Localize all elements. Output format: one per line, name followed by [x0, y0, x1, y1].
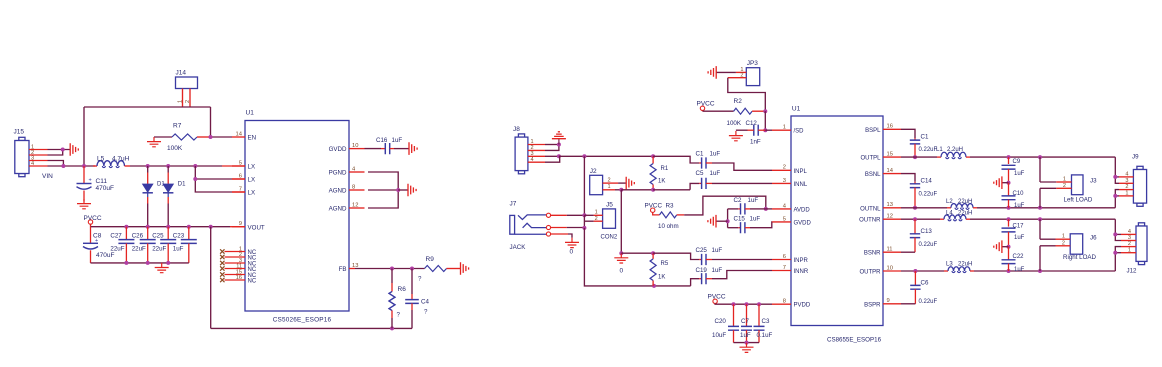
svg-text:1uF: 1uF	[1014, 171, 1025, 177]
svg-text:1: 1	[608, 184, 611, 190]
svg-text:6: 6	[783, 254, 786, 260]
svg-text:INPR: INPR	[794, 258, 809, 264]
svg-text:LX: LX	[248, 190, 256, 197]
svg-text:L2: L2	[946, 199, 953, 205]
svg-text:AGND: AGND	[329, 206, 347, 213]
svg-text:2: 2	[1063, 183, 1066, 189]
svg-text:INNL: INNL	[794, 182, 808, 188]
svg-text:1uF: 1uF	[740, 332, 751, 339]
svg-text:C25: C25	[696, 247, 708, 254]
svg-text:2: 2	[185, 100, 191, 103]
svg-text:R1: R1	[661, 166, 669, 172]
svg-text:OUTPL: OUTPL	[860, 156, 881, 162]
svg-text:BSNL: BSNL	[865, 172, 881, 178]
svg-text:GVDD: GVDD	[794, 220, 812, 226]
svg-text:OUTNL: OUTNL	[860, 206, 881, 212]
svg-text:J7: J7	[510, 201, 517, 208]
svg-text:INNR: INNR	[794, 269, 809, 275]
svg-text:22uH: 22uH	[958, 211, 972, 217]
svg-text:1nF: 1nF	[750, 139, 761, 146]
svg-text:C25: C25	[152, 233, 164, 240]
svg-text:C12: C12	[746, 120, 758, 127]
svg-text:INPL: INPL	[794, 169, 808, 175]
svg-text:C1: C1	[921, 134, 929, 141]
svg-text:U1: U1	[792, 106, 801, 113]
svg-text:CS8655E_ESOP16: CS8655E_ESOP16	[827, 337, 882, 344]
svg-text:J15: J15	[14, 129, 25, 136]
svg-text:OUTNR: OUTNR	[859, 218, 881, 224]
svg-text:0: 0	[570, 249, 574, 256]
svg-text:PVCC: PVCC	[697, 101, 715, 108]
svg-text:2: 2	[595, 216, 598, 222]
svg-text:16: 16	[887, 124, 893, 130]
svg-text:10: 10	[887, 265, 893, 271]
svg-text:2: 2	[1062, 240, 1065, 246]
svg-text:BSPL: BSPL	[865, 128, 881, 134]
svg-text:22uF: 22uF	[132, 246, 146, 253]
svg-text:1: 1	[595, 210, 598, 216]
svg-text:470uF: 470uF	[96, 252, 114, 259]
svg-text:1uF: 1uF	[173, 246, 184, 253]
svg-text:4: 4	[1128, 229, 1131, 235]
svg-text:12: 12	[887, 214, 893, 220]
svg-text:C6: C6	[921, 280, 929, 287]
svg-text:2: 2	[608, 177, 611, 183]
svg-text:L4: L4	[946, 211, 953, 217]
svg-text:9: 9	[887, 298, 890, 304]
svg-text:1: 1	[1062, 234, 1065, 240]
svg-text:8: 8	[783, 299, 786, 305]
svg-text:J2: J2	[590, 168, 597, 175]
svg-text:?: ?	[424, 309, 428, 316]
svg-text:BSPR: BSPR	[864, 302, 881, 308]
svg-text:0.22uF: 0.22uF	[919, 242, 938, 248]
svg-text:0.1uF: 0.1uF	[757, 332, 773, 339]
svg-text:J12: J12	[1127, 268, 1138, 275]
svg-text:AGND: AGND	[329, 188, 347, 195]
svg-text:LX: LX	[248, 164, 256, 171]
svg-text:C10: C10	[1013, 191, 1025, 197]
svg-text:U1: U1	[246, 110, 255, 117]
svg-text:C15: C15	[734, 216, 746, 223]
svg-text:13: 13	[887, 202, 893, 208]
svg-text:5: 5	[783, 216, 786, 222]
svg-text:L5: L5	[97, 156, 105, 163]
svg-text:100K: 100K	[167, 145, 183, 152]
svg-text:VIN: VIN	[42, 173, 53, 180]
svg-text:4: 4	[31, 161, 34, 167]
svg-text:1uF: 1uF	[750, 216, 761, 223]
svg-text:J5: J5	[606, 202, 613, 209]
svg-text:2: 2	[740, 72, 743, 78]
svg-text:1uF: 1uF	[712, 267, 723, 274]
svg-text:1uF: 1uF	[1014, 203, 1025, 209]
svg-text:C27: C27	[110, 233, 122, 240]
svg-text:PGND: PGND	[329, 170, 347, 177]
svg-text:VOUT: VOUT	[248, 224, 265, 231]
svg-text:1: 1	[1125, 191, 1128, 197]
svg-text:2: 2	[1128, 241, 1131, 247]
svg-text:10 ohm: 10 ohm	[658, 223, 679, 230]
svg-text:1: 1	[177, 100, 183, 103]
svg-text:3: 3	[1128, 235, 1131, 241]
svg-text:22uH: 22uH	[958, 199, 972, 205]
svg-text:?: ?	[397, 312, 401, 319]
svg-text:1uF: 1uF	[712, 247, 723, 254]
svg-text:LX: LX	[248, 177, 256, 184]
svg-text:3: 3	[783, 178, 786, 184]
svg-text:C17: C17	[1013, 223, 1025, 229]
svg-text:C4: C4	[421, 299, 429, 306]
svg-text:1uF: 1uF	[392, 137, 403, 144]
svg-text:1K: 1K	[658, 179, 665, 185]
svg-text:1uF: 1uF	[710, 170, 721, 177]
svg-text:L1: L1	[936, 147, 943, 153]
svg-text:C22: C22	[1013, 254, 1025, 260]
svg-text:CS5026E_ESOP16: CS5026E_ESOP16	[273, 317, 332, 324]
svg-text:J9: J9	[1132, 154, 1139, 161]
svg-text:C14: C14	[921, 178, 933, 185]
svg-text:GVDD: GVDD	[329, 146, 347, 153]
svg-text:14: 14	[236, 131, 243, 137]
svg-text:J8: J8	[513, 126, 520, 133]
svg-text:2: 2	[1125, 184, 1128, 190]
svg-text:2.2uH: 2.2uH	[947, 147, 963, 153]
svg-text:OUTPR: OUTPR	[860, 270, 882, 276]
svg-text:10uF: 10uF	[712, 332, 726, 339]
svg-text:1: 1	[783, 125, 786, 131]
svg-text:R2: R2	[734, 98, 743, 105]
svg-text:0.22uF: 0.22uF	[919, 299, 938, 305]
svg-text:1uF: 1uF	[748, 197, 759, 204]
svg-text:Right LOAD: Right LOAD	[1063, 254, 1097, 261]
svg-text:R5: R5	[661, 261, 669, 267]
svg-text:22uF: 22uF	[110, 246, 124, 253]
svg-text:J6: J6	[1090, 235, 1097, 242]
svg-text:100K: 100K	[727, 120, 742, 127]
svg-text:EN: EN	[248, 135, 257, 142]
svg-text:C7: C7	[741, 318, 749, 325]
svg-text:C20: C20	[715, 318, 727, 325]
svg-text:C9: C9	[1013, 159, 1021, 165]
svg-text:16: 16	[236, 275, 242, 281]
svg-text:C1: C1	[696, 151, 704, 158]
svg-text:4: 4	[531, 157, 534, 163]
svg-text:D1: D1	[178, 182, 186, 188]
svg-text:PVCC: PVCC	[708, 293, 726, 300]
svg-text:J14: J14	[176, 70, 187, 77]
svg-text:+: +	[89, 178, 92, 184]
svg-text:4: 4	[1125, 172, 1128, 178]
svg-text:C3: C3	[762, 318, 770, 325]
svg-text:11: 11	[887, 247, 893, 253]
svg-text:14: 14	[887, 168, 894, 174]
svg-text:C19: C19	[696, 267, 708, 274]
svg-text:15: 15	[887, 152, 893, 158]
svg-text:1uF: 1uF	[1014, 235, 1025, 241]
svg-text:JACK: JACK	[510, 244, 527, 251]
svg-text:C11: C11	[96, 178, 108, 185]
svg-text:22uF: 22uF	[152, 246, 166, 253]
svg-text:C5: C5	[696, 170, 704, 177]
svg-text:3: 3	[1125, 178, 1128, 184]
svg-text:PVDD: PVDD	[794, 303, 811, 309]
svg-text:Left LOAD: Left LOAD	[1064, 197, 1093, 204]
svg-text:C8: C8	[93, 233, 102, 240]
svg-text:470uF: 470uF	[96, 185, 114, 192]
svg-text:JP3: JP3	[747, 60, 759, 67]
svg-text:22uH: 22uH	[958, 262, 972, 268]
svg-text:R3: R3	[666, 203, 675, 210]
svg-text:0: 0	[620, 268, 624, 275]
svg-text:12: 12	[352, 202, 358, 208]
svg-text:PVCC: PVCC	[645, 203, 663, 210]
svg-text:NC: NC	[248, 278, 257, 284]
svg-text:1: 1	[1128, 247, 1131, 253]
svg-text:C2: C2	[734, 197, 742, 204]
svg-text:AVDD: AVDD	[794, 207, 811, 213]
svg-text:2: 2	[783, 165, 786, 171]
svg-text:C13: C13	[921, 228, 933, 235]
svg-text:J3: J3	[1090, 177, 1097, 184]
svg-text:BSNR: BSNR	[864, 251, 881, 257]
svg-text:/SD: /SD	[794, 129, 805, 135]
svg-text:8: 8	[352, 184, 355, 190]
svg-text:1uF: 1uF	[710, 151, 721, 158]
svg-text:1: 1	[1063, 176, 1066, 182]
svg-text:CON2: CON2	[601, 235, 618, 241]
svg-text:C16: C16	[376, 137, 388, 144]
svg-text:FB: FB	[339, 266, 347, 273]
svg-text:C26: C26	[132, 233, 144, 240]
svg-text:7: 7	[783, 265, 786, 271]
svg-text:PVCC: PVCC	[84, 215, 102, 222]
svg-text:0.22uF: 0.22uF	[919, 147, 938, 153]
svg-text:1uF: 1uF	[1014, 267, 1025, 273]
svg-text:R6: R6	[398, 286, 407, 293]
svg-text:R7: R7	[173, 123, 182, 130]
svg-text:R9: R9	[426, 256, 435, 263]
svg-text:L3: L3	[946, 262, 953, 268]
svg-text:?: ?	[418, 276, 422, 283]
svg-text:10: 10	[352, 143, 358, 149]
svg-text:0.22uF: 0.22uF	[919, 192, 938, 198]
svg-text:C23: C23	[173, 233, 185, 240]
svg-text:1K: 1K	[658, 275, 665, 281]
svg-text:4.7uH: 4.7uH	[112, 156, 130, 163]
